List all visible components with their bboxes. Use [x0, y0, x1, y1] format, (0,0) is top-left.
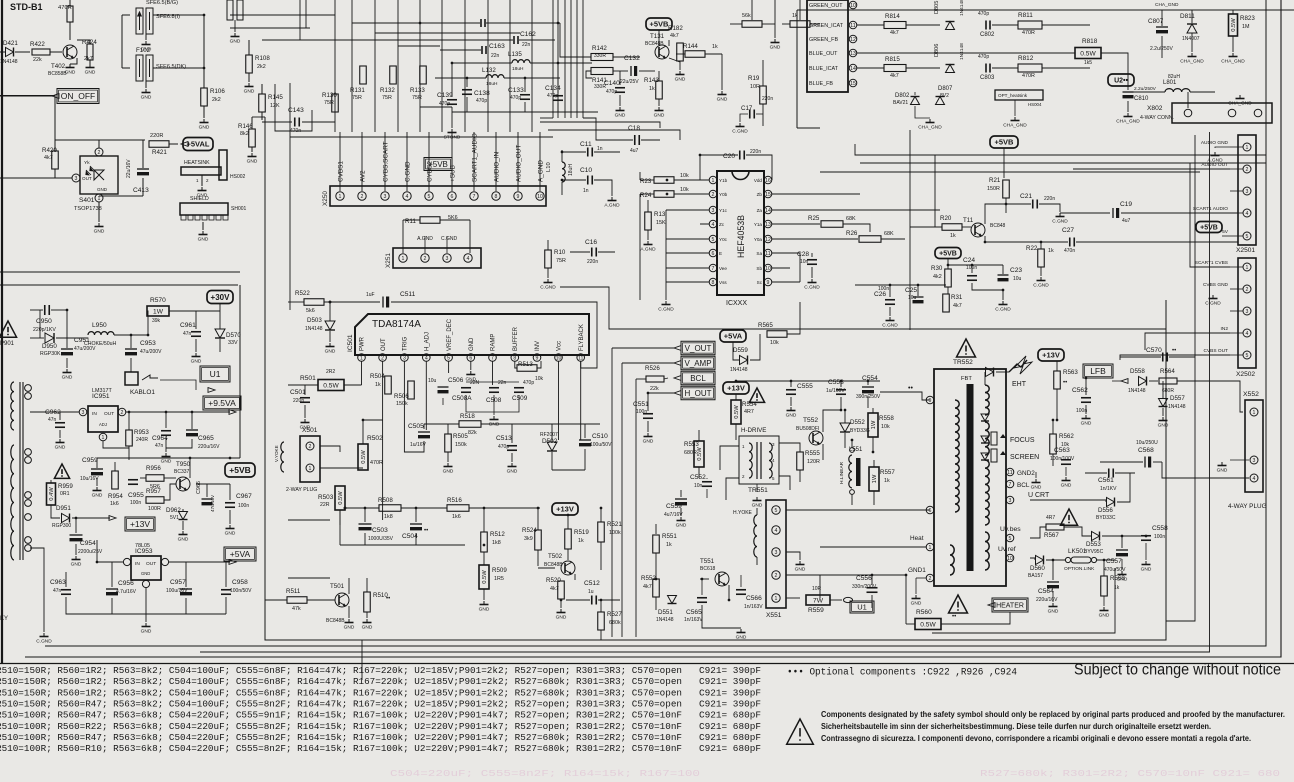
pin FBT-11 GND2: [1006, 468, 1014, 476]
wire Za out: [772, 209, 940, 211]
ground C961: [195, 353, 197, 357]
svg-text:GND: GND: [325, 349, 336, 355]
svg-text:BU508DFI: BU508DFI: [796, 426, 819, 432]
ground T501: [348, 619, 350, 623]
pin X250-2 AV2: [358, 192, 366, 200]
wire R511 to T501: [307, 599, 335, 601]
wire D570 top: [219, 311, 221, 329]
pin X250-3 CYBS.SCART: [381, 192, 389, 200]
svg-text:1W: 1W: [871, 420, 877, 429]
wire to R508: [345, 507, 379, 509]
wire R520 gnd: [560, 599, 562, 608]
svg-text:STD-B1: STD-B1: [10, 2, 43, 12]
svg-text:C.GND: C.GND: [995, 307, 1011, 313]
svg-text:C921= 390pF: C921= 390pF: [699, 698, 761, 709]
IC U~ HEF4053B: [717, 171, 764, 295]
junction dot: [1085, 377, 1088, 380]
wire cap rail: [855, 284, 946, 286]
wire +30V: [219, 304, 221, 311]
pin X552-4: [1250, 474, 1258, 482]
wire S401 pin2 top: [98, 140, 100, 148]
svg-text:GND: GND: [362, 625, 373, 631]
svg-text:1k: 1k: [375, 382, 381, 388]
svg-text:1n/1KV: 1n/1KV: [1100, 486, 1117, 492]
frame 2 right+bottom: [45, 0, 1266, 646]
capacitor C962 47n: [55, 422, 65, 424]
wire L132 left: [435, 77, 486, 79]
svg-text:••: ••: [1063, 380, 1067, 386]
svg-text:5: 5: [428, 194, 431, 200]
svg-text:1N4148: 1N4148: [1128, 388, 1146, 394]
V yoke coil: [281, 442, 284, 472]
svg-text:TRIG: TRIG: [403, 336, 409, 351]
resistor R420 4k7: [52, 151, 59, 169]
svg-text:L132: L132: [482, 67, 496, 74]
svg-text:12: 12: [765, 237, 771, 243]
svg-text:GND: GND: [198, 237, 209, 243]
capacitor C10 1n: [587, 176, 589, 185]
wire Y1a to R25: [772, 223, 820, 225]
pin X551-2: [772, 571, 780, 579]
svg-text:R570: R570: [150, 297, 166, 304]
border above table: [0, 663, 1294, 665]
wire R823 bottom: [1232, 36, 1234, 52]
resistor R562 10k: [1050, 434, 1057, 454]
svg-text:5: 5: [1246, 353, 1249, 359]
svg-text:8k2: 8k2: [240, 131, 249, 137]
svg-text:C20: C20: [723, 153, 735, 160]
svg-text:AV2: AV2: [359, 170, 366, 182]
pin U-HEF 14 Za: [764, 206, 772, 214]
wire R551-R552: [655, 553, 657, 579]
pin FBT-5 Uvbes: [1006, 534, 1014, 542]
pin S401-1: [95, 194, 103, 202]
svg-text:R557: R557: [880, 469, 895, 476]
capacitor C133 470p: [520, 94, 530, 96]
wire V_AMP vertical: [621, 363, 623, 637]
ground shield: [202, 231, 204, 235]
svg-text:4u7: 4u7: [1122, 218, 1131, 224]
svg-text:C16: C16: [585, 239, 597, 246]
wire C11 right: [594, 151, 620, 153]
wire bus drop: [564, 0, 566, 118]
spacer8: [339, 462, 341, 486]
svg-text:220R: 220R: [150, 133, 163, 139]
svg-text:100k: 100k: [609, 530, 621, 536]
pin X2502-2: [1243, 285, 1251, 293]
junction dot: [96, 561, 99, 564]
svg-text:D805: D805: [934, 1, 940, 14]
junction dot: [130, 334, 133, 337]
junction dot: [466, 77, 469, 80]
junction dot: [537, 507, 540, 510]
wire C967 top: [229, 484, 231, 500]
wire R503 down: [339, 510, 341, 525]
wire F102 gnd: [145, 81, 147, 88]
ground hd bottom: [740, 629, 742, 633]
wire C504 down: [415, 533, 417, 545]
svg-text:C958: C958: [232, 579, 248, 586]
svg-text:680k: 680k: [609, 620, 621, 626]
resistor R518 82k: [459, 421, 481, 428]
svg-text:680R: 680R: [684, 450, 697, 456]
wire filter gnd rail: [452, 111, 598, 113]
spacer11: [560, 581, 562, 599]
svg-text:1W: 1W: [872, 474, 878, 483]
transformer T901 winding: [11, 382, 14, 430]
svg-text:C501: C501: [290, 389, 306, 396]
opt heatsink HS004: [995, 90, 1043, 100]
svg-text:0.5W: 0.5W: [920, 621, 936, 628]
svg-text:C23: C23: [1010, 267, 1022, 274]
svg-text:GND: GND: [85, 70, 96, 76]
ground heatsink: [201, 187, 203, 191]
capacitor C505 1u/16V: [418, 431, 430, 433]
connector X552: [1245, 400, 1263, 492]
warning triangle hd: [749, 388, 764, 402]
wire to L801: [1128, 91, 1165, 93]
transformer FBT body: [934, 369, 1006, 586]
wire C18 right: [641, 139, 660, 141]
resistor R22 1k: [1038, 249, 1045, 267]
svg-text:C.GND: C.GND: [1052, 219, 1068, 225]
svg-text:C561: C561: [1098, 477, 1114, 484]
svg-text:22u/25V: 22u/25V: [620, 79, 639, 85]
wire to C21: [1006, 203, 1031, 205]
junction dot: [147, 334, 150, 337]
wire yoke top: [756, 508, 758, 515]
wire cvbsout: [1120, 355, 1230, 360]
svg-text:OUT: OUT: [82, 176, 92, 181]
svg-text:0.5W: 0.5W: [1231, 18, 1237, 32]
connector X501: [300, 436, 320, 482]
ground S401: [98, 223, 100, 227]
power +5VB audio: [990, 136, 1018, 148]
svg-text:C553: C553: [828, 379, 844, 386]
junction dot: [666, 193, 669, 196]
wire pin3: [666, 209, 709, 211]
svg-text:11: 11: [765, 251, 770, 257]
wire X2501 p5: [1230, 235, 1243, 237]
svg-text:1: 1: [339, 194, 342, 200]
svg-text:100n: 100n: [878, 286, 889, 292]
svg-text:12K: 12K: [270, 103, 280, 109]
svg-text:R133: R133: [410, 87, 425, 94]
svg-text:A.GND: A.GND: [640, 247, 656, 253]
inductor L132 18uH: [486, 75, 504, 78]
svg-text:U CRT: U CRT: [1028, 492, 1050, 499]
svg-text:C139: C139: [437, 92, 453, 99]
svg-text:3: 3: [1246, 309, 1249, 315]
wire D950 left: [30, 337, 44, 339]
wire R954 top: [114, 462, 116, 471]
svg-text:GND: GND: [1048, 609, 1059, 615]
svg-text:GND1: GND1: [908, 567, 926, 574]
svg-text:R568: R568: [1110, 575, 1125, 582]
diode D556 BYD33C: [1107, 498, 1115, 507]
svg-text:C552: C552: [690, 474, 706, 481]
svg-text:1000U/35V: 1000U/35V: [368, 536, 394, 542]
svg-text:68K: 68K: [884, 231, 894, 237]
resistor R511 47k: [287, 597, 307, 604]
svg-text:1k: 1k: [578, 538, 584, 544]
wire C513 gnd: [511, 453, 513, 462]
svg-text:8V2: 8V2: [940, 93, 949, 99]
wire C503 top: [364, 508, 366, 522]
wire pin6: [666, 252, 709, 254]
svg-text:330R: 330R: [594, 53, 606, 59]
svg-text:150k: 150k: [396, 401, 408, 407]
pin X2502-4: [1243, 329, 1251, 337]
capacitor C134 470p: [553, 95, 563, 97]
svg-text:Y1a: Y1a: [754, 222, 763, 227]
wire X2502 p5: [1230, 354, 1243, 356]
ground A_GND C10: [611, 197, 613, 201]
svg-text:22k: 22k: [33, 57, 42, 63]
ground R509: [483, 601, 485, 605]
svg-text:7W: 7W: [813, 597, 824, 604]
svg-text:GND: GND: [199, 125, 210, 131]
svg-text:R132: R132: [380, 87, 395, 94]
junction dot: [735, 380, 738, 383]
IC IC501 TDA8174A: [355, 314, 589, 355]
svg-text:X2502: X2502: [1236, 371, 1255, 378]
svg-text:4k7: 4k7: [890, 30, 899, 36]
wire R512-R509: [483, 552, 485, 565]
svg-text:C28: C28: [797, 251, 809, 258]
wire X250 pin3: [384, 132, 386, 191]
wire R522 left: [288, 301, 304, 303]
resistor R811 470R: [1018, 21, 1042, 29]
svg-text:18uH: 18uH: [568, 164, 574, 176]
resistor R30 4k2: [945, 269, 952, 287]
wire C950-D950 left join: [39, 310, 41, 338]
wire C501 gnd: [304, 405, 306, 418]
svg-text:GREEN_ICAT: GREEN_ICAT: [809, 23, 844, 29]
svg-text:IC953: IC953: [135, 548, 153, 555]
FBT heater winding: [950, 545, 954, 575]
wire D560-LK501: [1046, 559, 1065, 561]
junction dot: [917, 284, 920, 287]
wire X251 p2: [424, 236, 426, 253]
heatsink HS002: [181, 167, 221, 175]
resistor R24 10k: [654, 191, 674, 198]
wire X802 p1: [1187, 92, 1189, 108]
svg-text:18uH: 18uH: [512, 66, 524, 72]
svg-text:••: ••: [908, 385, 913, 392]
wire C27 out to X2502: [1076, 241, 1238, 243]
svg-text:1k: 1k: [649, 86, 655, 92]
wire R558 down: [872, 437, 874, 452]
svg-text:C510: C510: [592, 433, 608, 440]
junction dot: [1005, 203, 1008, 206]
wire grid c: [398, 45, 440, 47]
svg-text:1N4148: 1N4148: [959, 43, 965, 60]
wire to R106: [203, 68, 205, 88]
svg-text:H_OUT: H_OUT: [684, 389, 711, 398]
svg-text:47n: 47n: [53, 588, 62, 594]
wire R10 top: [547, 240, 549, 250]
wire C559 top: [680, 490, 682, 497]
ground C562: [1085, 415, 1087, 419]
pin4 wire: [700, 223, 709, 225]
junction dot: [419, 22, 422, 25]
capacitor C964 47n: [161, 430, 171, 432]
connector KABLO1: [125, 372, 138, 385]
resistor R551 1k: [653, 535, 660, 553]
svg-text:4: 4: [1246, 211, 1249, 217]
svg-text:Za: Za: [757, 208, 763, 213]
svg-text:GND: GND: [1141, 567, 1152, 573]
pin T901 460: [25, 457, 32, 464]
ground C951: [66, 369, 68, 373]
wire rail B: [860, 162, 1266, 164]
IC RGB block: [807, 0, 848, 92]
svg-text:C555: C555: [797, 383, 813, 390]
junction dot: [871, 574, 874, 577]
diode D802 BAV21: [911, 97, 920, 105]
svg-text:D552: D552: [850, 419, 865, 426]
pin U-HEF 7 Vee: [709, 264, 717, 272]
wire left common: [665, 210, 667, 296]
wire C959 top: [96, 458, 98, 468]
wire GND2: [1035, 472, 1037, 478]
svg-text:SFE6.5(DK): SFE6.5(DK): [156, 64, 186, 70]
label box ON_OFF: [57, 89, 99, 104]
wire to X251 p4: [469, 220, 471, 253]
svg-text:4: 4: [775, 528, 778, 534]
pin IC501-3 TRIG: [401, 354, 409, 362]
pin X551-5: [772, 506, 780, 514]
wire L551 top: [851, 440, 853, 448]
svg-text:U1: U1: [857, 603, 867, 612]
junction R522: [329, 301, 332, 304]
svg-text:1: 1: [1253, 410, 1256, 416]
svg-text:GND: GND: [225, 531, 236, 537]
svg-text:C26: C26: [874, 291, 886, 298]
junction dot: [1052, 559, 1055, 562]
wire into in: [96, 540, 98, 562]
pin IC951 adj: [99, 433, 107, 441]
svg-text:3: 3: [384, 194, 387, 200]
svg-text:L10: L10: [546, 162, 552, 172]
wire R421 out: [169, 143, 178, 145]
wire R420 bottom: [0, 169, 55, 178]
pin X251-3: [443, 254, 451, 262]
resistor R132 75R: [390, 66, 397, 84]
pin T901 452: [25, 449, 32, 456]
junction dot: [362, 419, 365, 422]
wire C501 top: [304, 385, 306, 395]
svg-text:12: 12: [850, 37, 856, 43]
capacitor C510 100u/50V: [579, 439, 591, 441]
wire C20 left: [700, 154, 738, 156]
svg-text:R23: R23: [640, 178, 652, 185]
pin X2502-5: [1243, 351, 1251, 359]
wire R501 left: [288, 384, 318, 386]
wire C953 top: [130, 335, 132, 348]
wire step frame1: [540, 122, 660, 128]
wire R567 to D553: [1064, 527, 1091, 536]
diode D951 RGP300: [62, 514, 70, 523]
wire pin8 to R513: [515, 361, 517, 368]
wire T502 base: [538, 567, 555, 569]
wire R20 to T11: [962, 226, 971, 228]
wire C562 gnd: [1085, 405, 1087, 414]
svg-text:Sb: Sb: [756, 266, 762, 271]
svg-text:R143: R143: [644, 77, 659, 84]
pin IC501-2 OUT: [379, 354, 387, 362]
ground C551: [647, 433, 649, 437]
svg-text:10k: 10k: [881, 424, 890, 430]
junction dot: [840, 409, 843, 412]
spacer18: [879, 412, 881, 575]
svg-text:8: 8: [513, 356, 516, 362]
svg-text:1uF: 1uF: [366, 292, 375, 298]
wire C505-R518: [424, 423, 459, 425]
ground D557: [1162, 417, 1164, 421]
wire in2: [1145, 333, 1230, 350]
wire C568 left: [1100, 461, 1143, 463]
svg-text:5: 5: [775, 508, 778, 514]
svg-text:13: 13: [850, 51, 856, 57]
svg-text:1: 1: [402, 256, 405, 262]
wire X2501 p3: [1230, 190, 1243, 192]
wire bottom gnd rail: [66, 597, 226, 614]
wire pin drop: [448, 361, 450, 373]
wire R509 gnd: [483, 589, 485, 600]
svg-text:4k7: 4k7: [670, 33, 679, 39]
ground GND1: [915, 595, 917, 599]
pin X2502-3: [1243, 307, 1251, 315]
svg-text:••: ••: [386, 596, 390, 602]
svg-text:KY: KY: [0, 616, 8, 622]
svg-text:AUDIO_OUT: AUDIO_OUT: [515, 145, 522, 182]
wire cvbs1: [1190, 163, 1230, 267]
pin X2501-2: [1243, 165, 1251, 173]
resistor R141 330R: [591, 68, 613, 75]
wire C807 bottom: [1161, 36, 1163, 58]
wire R505 top: [447, 424, 449, 434]
pin X250-8 AUDIO_IN: [492, 192, 500, 200]
svg-text:R131: R131: [350, 87, 365, 94]
resistor R424 2k7: [87, 44, 93, 60]
connector X2501: [1238, 135, 1256, 245]
svg-text:CHOKE/50uH: CHOKE/50uH: [84, 341, 117, 347]
arrow V_AMP: [674, 361, 681, 366]
wire C967 gnd: [229, 510, 231, 524]
svg-text:2.2u/250V: 2.2u/250V: [1134, 86, 1157, 92]
svg-text:4u7: 4u7: [630, 148, 639, 154]
arrow +13V: [109, 516, 116, 521]
box U1 power: [200, 366, 230, 382]
wire top rail hd: [736, 380, 880, 382]
pin X2501-3: [1243, 187, 1251, 195]
wire to T501 base rail: [288, 577, 330, 579]
resistor R145 12K: [259, 94, 266, 112]
svg-text:150R: 150R: [987, 186, 1000, 192]
svg-text:5V1: 5V1: [170, 515, 179, 521]
ground F101: [145, 41, 147, 45]
svg-text:GND: GND: [161, 459, 172, 465]
pin U-HEF 5 Y0c: [709, 235, 717, 243]
pin X250-6 +SUB: [448, 192, 456, 200]
svg-text:OPT_heatsink: OPT_heatsink: [998, 93, 1028, 98]
svg-text:D570: D570: [226, 332, 241, 339]
wire R956-T950: [164, 477, 176, 479]
wire C24 bot: [972, 283, 1003, 290]
resistor R506 150k: [408, 381, 415, 399]
